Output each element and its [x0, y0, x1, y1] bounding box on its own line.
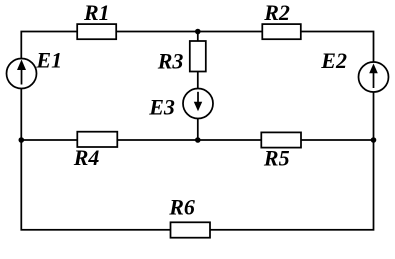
svg-text:R4: R4: [73, 145, 100, 170]
svg-text:E2: E2: [320, 48, 347, 73]
svg-text:R1: R1: [83, 0, 110, 25]
svg-text:R6: R6: [168, 194, 195, 219]
svg-text:R5: R5: [263, 145, 290, 170]
svg-text:R2: R2: [263, 0, 290, 25]
svg-text:E1: E1: [35, 48, 62, 73]
svg-text:E3: E3: [148, 94, 175, 119]
svg-text:R3: R3: [157, 48, 184, 73]
